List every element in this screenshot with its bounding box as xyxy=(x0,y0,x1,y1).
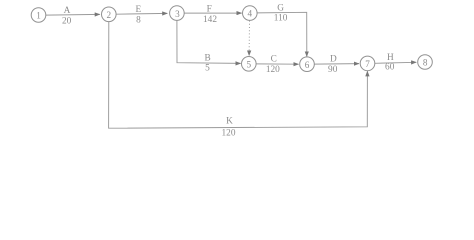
svg-text:E: E xyxy=(135,5,141,15)
svg-text:110: 110 xyxy=(274,14,288,24)
label B/5 xyxy=(204,54,210,74)
svg-text:5: 5 xyxy=(247,59,252,69)
node 2 xyxy=(102,7,117,22)
svg-text:120: 120 xyxy=(266,65,280,75)
svg-text:90: 90 xyxy=(328,65,338,75)
node 5 xyxy=(242,57,257,72)
node 7 xyxy=(360,56,375,71)
label K/120 xyxy=(222,117,236,139)
svg-text:H: H xyxy=(387,53,394,63)
wire H (7 to 8) xyxy=(375,62,416,63)
node 4 xyxy=(243,6,258,21)
node 6 xyxy=(300,57,315,72)
wire G (4 right then down to 6) xyxy=(257,12,307,56)
svg-text:5: 5 xyxy=(205,63,210,73)
svg-text:120: 120 xyxy=(222,128,236,138)
wire A (1 to 2) xyxy=(46,13,100,16)
svg-text:60: 60 xyxy=(385,63,395,73)
svg-text:F: F xyxy=(207,5,212,15)
label A/20 xyxy=(62,6,72,26)
node 3 xyxy=(170,6,185,21)
wire B (3 down then right to 5) xyxy=(177,20,241,63)
svg-text:3: 3 xyxy=(175,9,180,19)
svg-text:K: K xyxy=(226,117,233,127)
node 1 xyxy=(31,8,46,23)
label G/110 xyxy=(274,3,288,23)
svg-text:D: D xyxy=(330,54,337,64)
label C/120 xyxy=(266,54,280,75)
wire E (2 to 3) xyxy=(116,12,167,15)
wire K (2 down, across bottom, up to 7) xyxy=(109,22,368,129)
svg-text:8: 8 xyxy=(423,57,428,67)
svg-text:B: B xyxy=(204,54,210,64)
svg-text:1: 1 xyxy=(36,11,41,21)
label D/90 xyxy=(328,54,338,74)
label F/142 xyxy=(203,5,217,26)
svg-text:4: 4 xyxy=(248,9,253,19)
wire F (3 to 4) xyxy=(184,12,241,14)
label E/8 xyxy=(135,5,141,25)
svg-text:G: G xyxy=(277,3,284,13)
svg-text:2: 2 xyxy=(107,10,112,20)
wire C (5 to 6) xyxy=(256,63,298,65)
label H/60 xyxy=(385,53,395,73)
svg-text:C: C xyxy=(271,54,277,64)
svg-text:6: 6 xyxy=(305,60,310,70)
svg-text:A: A xyxy=(64,6,71,16)
svg-text:20: 20 xyxy=(62,16,72,26)
dummy dependency 4 to 5 (dotted) xyxy=(248,21,250,56)
wire D (6 to 7) xyxy=(314,63,359,66)
svg-text:142: 142 xyxy=(203,15,217,25)
svg-text:7: 7 xyxy=(365,59,370,69)
node 8 xyxy=(418,55,433,70)
svg-text:8: 8 xyxy=(136,15,141,25)
